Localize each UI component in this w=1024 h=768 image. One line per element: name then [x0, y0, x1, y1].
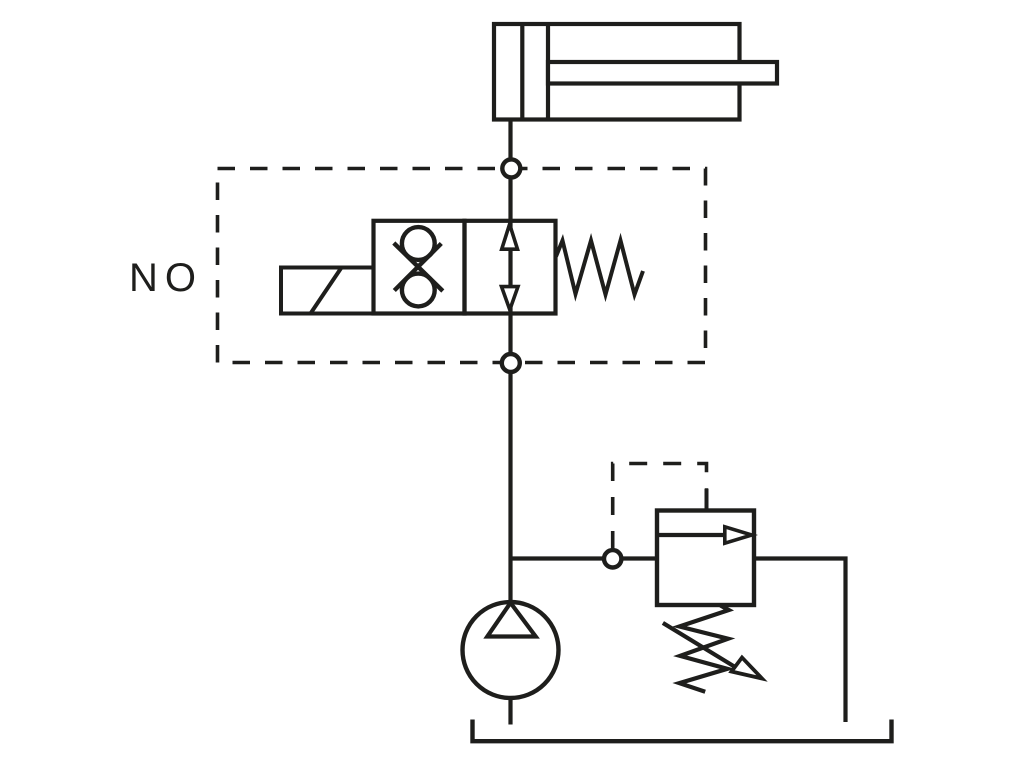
solenoid diagonal stroke	[311, 268, 342, 314]
seat valve lower circle	[402, 274, 435, 307]
wire: main vertical line from cylinder through valve to pump	[508, 120, 512, 604]
svg-text:NO: NO	[129, 256, 203, 300]
cylinder body	[494, 24, 740, 120]
relief valve spring (zigzag below box)	[679, 606, 728, 692]
pump (circle)	[463, 602, 559, 698]
wire: relief valve outlet to tank	[754, 559, 846, 723]
valve position box right (open, flow path)	[465, 221, 556, 314]
seat valve upper circle	[402, 227, 435, 260]
dashed enclosure box around valve (NO assembly)	[218, 169, 706, 363]
cylinder piston rod	[548, 62, 777, 84]
seat valve X diagonal 1	[394, 243, 443, 291]
solenoid actuator box	[281, 268, 374, 314]
flow path down arrowhead	[502, 287, 519, 310]
node: valve bottom port	[502, 354, 520, 372]
relief valve adjustment arrowhead	[732, 658, 763, 679]
node: valve top port	[502, 159, 520, 177]
relief valve adjustment arrow shaft	[663, 623, 740, 670]
relief valve internal arrowhead	[725, 527, 752, 543]
flow path up arrowhead	[502, 224, 518, 249]
pilot line (dashed) from branch node to relief valve top	[613, 464, 707, 550]
relief valve internal flow line	[657, 533, 726, 537]
node: branch to relief pilot	[604, 550, 621, 567]
relief valve body box	[657, 511, 754, 606]
valve return spring	[556, 241, 643, 295]
pump flow triangle	[487, 603, 535, 637]
tank (open reservoir)	[473, 720, 892, 742]
cylinder piston (two lines)	[520, 24, 524, 120]
seat valve X diagonal 2	[394, 244, 441, 291]
wire: horizontal branch from main line to relief valve	[511, 556, 658, 560]
relief valve top pin (solid)	[705, 489, 709, 512]
valve position box left (blocked, seat valve symbol)	[374, 221, 465, 314]
wire: pump suction to tank	[508, 698, 512, 725]
